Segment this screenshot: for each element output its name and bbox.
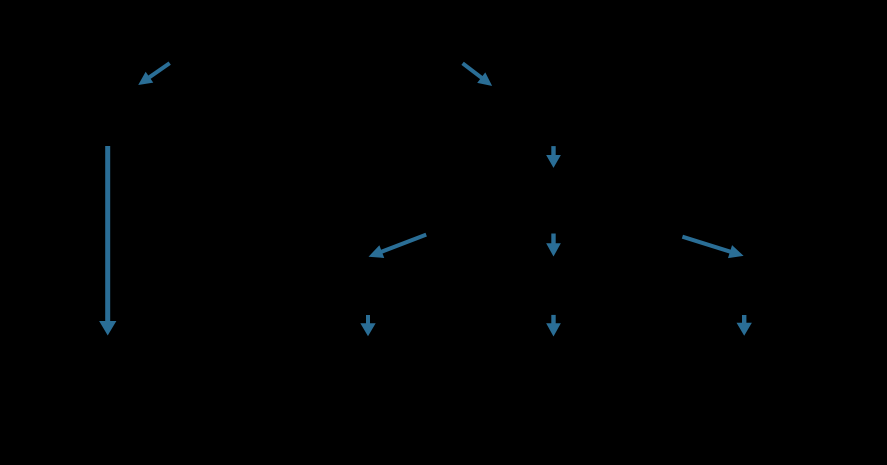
arrow H: short vertical connector lower-left branch [361, 315, 375, 335]
arrow C: long vertical connector left column [100, 146, 116, 335]
arrow E: middle-left diagonal connector (down-left) [370, 235, 427, 258]
arrow D: short vertical connector middle column (row 1) [547, 146, 560, 167]
arrow A: top-left diagonal connector (down-left) [139, 63, 170, 84]
arrow F: short vertical connector middle column (row 2) [547, 234, 560, 256]
arrow J: short vertical connector lower-right branch [737, 315, 751, 335]
arrow B: top-right diagonal connector (down-right) [463, 63, 492, 85]
arrow I: short vertical connector middle column (row 3) [547, 315, 560, 336]
arrow G: middle-right diagonal connector (down-right) [682, 237, 742, 258]
